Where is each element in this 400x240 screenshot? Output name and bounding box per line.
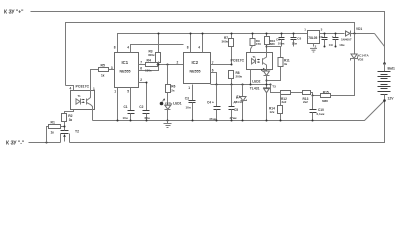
ground — [164, 121, 172, 128]
wire rail2 +12V — [66, 23, 355, 86]
pin wire bottom left — [250, 70, 252, 85]
svg-text:C7: C7 — [319, 35, 323, 39]
svg-text:1к: 1к — [51, 130, 55, 134]
wire to R11 — [267, 47, 281, 58]
capacitor C5 — [229, 85, 239, 122]
svg-text:К ЗУ "-": К ЗУ "-" — [6, 141, 25, 147]
internal phototransistor — [262, 58, 264, 64]
wire bottom rail to battery — [70, 101, 385, 143]
svg-text:T2: T2 — [75, 130, 79, 134]
svg-text:2к2: 2к2 — [282, 100, 287, 104]
ground — [310, 47, 317, 49]
svg-text:3: 3 — [111, 66, 113, 70]
pin 6 wire — [139, 65, 159, 71]
svg-text:1: 1 — [93, 87, 95, 91]
svg-text:1к: 1к — [101, 73, 105, 77]
wire top positive rail — [31, 12, 385, 64]
svg-text:6: 6 — [212, 69, 214, 73]
svg-text:Bat1: Bat1 — [388, 66, 395, 70]
svg-text:10м: 10м — [339, 43, 344, 47]
svg-text:К ЗУ "+": К ЗУ "+" — [4, 10, 24, 16]
resistor R2 — [62, 110, 74, 131]
output wire — [320, 33, 345, 35]
svg-text:2: 2 — [177, 61, 179, 65]
svg-text:7: 7 — [140, 61, 142, 65]
svg-text:8: 8 — [114, 46, 116, 50]
pin 8 wire — [190, 34, 192, 53]
wire bottom negative rail left — [29, 142, 61, 144]
resistor R4 — [145, 59, 184, 73]
svg-text:47мк: 47мк — [230, 116, 238, 120]
wire ground rail — [93, 101, 385, 121]
diode VD1 — [341, 27, 375, 41]
pin 5 wire — [130, 88, 132, 111]
svg-text:7: 7 — [212, 61, 214, 65]
svg-text:470: 470 — [256, 42, 261, 46]
resistor R8 — [229, 64, 243, 86]
op-amp IC2 NE555 — [184, 33, 232, 101]
svg-text:NE555: NE555 — [190, 70, 201, 74]
wire TL431 ref branch — [270, 84, 281, 93]
pin 1 wire to C3 — [192, 85, 194, 101]
svg-text:0,1мк: 0,1мк — [317, 112, 325, 116]
svg-text:68н: 68н — [145, 116, 150, 120]
svg-text:4: 4 — [70, 87, 72, 91]
capacitor C1 — [123, 105, 135, 122]
svg-text:VD1: VD1 — [356, 27, 362, 31]
svg-text:R1: R1 — [51, 121, 55, 125]
wire node line y84 — [211, 84, 271, 86]
svg-text:Д1: Д1 — [236, 95, 240, 99]
svg-text:C9: C9 — [329, 43, 333, 47]
resistor R10 — [265, 33, 276, 53]
capacitor C8 — [291, 33, 302, 47]
svg-text:10м: 10м — [292, 42, 297, 46]
resistor R1 — [47, 121, 65, 143]
resistor R3 — [148, 33, 161, 65]
internal phototransistor — [86, 99, 88, 105]
svg-text:TL431: TL431 — [250, 87, 260, 91]
svg-text:10н: 10н — [123, 116, 128, 120]
pin 7 wire — [139, 64, 146, 66]
svg-text:C5: C5 — [234, 108, 238, 112]
svg-text:8: 8 — [187, 46, 189, 50]
zener D1 — [234, 84, 247, 122]
svg-text:1: 1 — [114, 89, 116, 93]
svg-text:NE555: NE555 — [120, 70, 131, 74]
svg-text:Т3: Т3 — [272, 84, 276, 88]
svg-text:Д814А: Д814А — [234, 100, 244, 104]
resistor R13 — [303, 91, 321, 105]
ground pin — [313, 44, 315, 47]
pin 2 wire — [139, 83, 147, 111]
svg-text:10мк: 10мк — [278, 42, 285, 46]
optocoupler U1 PC817C — [66, 72, 96, 110]
capacitor C7 — [319, 33, 334, 48]
resistor R14 — [269, 93, 283, 122]
svg-text:C3: C3 — [185, 97, 189, 101]
resistor R7 — [222, 33, 234, 65]
svg-text:R5: R5 — [101, 63, 105, 67]
LED LED2 — [252, 68, 269, 88]
wire diagonal to battery plus — [375, 34, 385, 47]
wire U1 pin2 to ground rail — [92, 110, 94, 121]
svg-text:300к: 300к — [148, 53, 155, 57]
capacitor C2 — [139, 105, 150, 122]
resistor R5 — [91, 63, 115, 77]
svg-text:PC817C: PC817C — [231, 58, 245, 62]
pin 7 wire — [211, 64, 232, 66]
pin 4 — [66, 86, 74, 91]
svg-text:12V: 12V — [388, 97, 395, 101]
svg-text:1: 1 — [188, 86, 190, 90]
svg-text:10н: 10н — [186, 106, 191, 110]
wire rail3 Vcc of timers — [118, 34, 308, 53]
pin 4 wire — [131, 45, 184, 53]
svg-text:IC1: IC1 — [122, 60, 129, 65]
svg-text:C2: C2 — [139, 105, 143, 109]
svg-text:3к: 3к — [69, 118, 73, 122]
svg-text:IC2: IC2 — [192, 60, 199, 65]
resistor R11 — [267, 58, 290, 81]
svg-text:6: 6 — [140, 67, 142, 71]
svg-text:4: 4 — [198, 46, 200, 50]
pin 1 wire — [117, 88, 119, 121]
svg-text:6М8: 6М8 — [322, 99, 328, 103]
zener VD2 — [351, 34, 370, 96]
transistor T2 — [61, 127, 80, 143]
svg-text:LED2: LED2 — [252, 80, 260, 84]
svg-text:47мк: 47мк — [209, 117, 217, 121]
svg-text:680: 680 — [270, 42, 275, 46]
capacitor C4 — [207, 84, 221, 122]
pin 3 — [90, 72, 92, 91]
resistor R15 — [321, 61, 355, 103]
capacitor C9 — [329, 33, 345, 48]
voltage regulator 78L05 — [304, 28, 344, 53]
LED LED1 — [160, 93, 182, 122]
svg-text:4: 4 — [127, 46, 129, 50]
capacitor C6 — [276, 33, 285, 47]
svg-text:200к: 200к — [236, 75, 243, 79]
capacitor C3 — [185, 97, 196, 122]
svg-text:C4 +: C4 + — [207, 101, 214, 105]
op-amp IC1 NE555 — [114, 45, 184, 122]
resistor R6 — [166, 65, 176, 93]
shunt regulator TL431 — [250, 84, 276, 121]
optocoupler U2 PC817C — [231, 53, 273, 86]
svg-text:12к: 12к — [270, 110, 275, 114]
svg-text:PC817C: PC817C — [76, 85, 90, 89]
battery Bat1 — [378, 62, 395, 102]
svg-text:3к: 3к — [284, 62, 288, 66]
svg-text:C8: C8 — [297, 37, 301, 41]
svg-text:R15: R15 — [323, 91, 329, 95]
svg-text:R4: R4 — [147, 59, 151, 63]
svg-text:130к: 130к — [145, 69, 152, 73]
pin 6 wire — [211, 73, 217, 85]
svg-text:2: 2 — [140, 78, 142, 82]
svg-text:360к: 360к — [222, 40, 229, 44]
capacitor C10 — [310, 96, 325, 122]
svg-text:2к: 2к — [171, 89, 175, 93]
svg-text:78L05: 78L05 — [308, 36, 317, 40]
svg-text:5: 5 — [127, 89, 129, 93]
pin 4 wire — [202, 34, 204, 53]
resistor R9 — [250, 33, 261, 53]
svg-text:2к2: 2к2 — [303, 100, 308, 104]
svg-text:1N4007: 1N4007 — [341, 37, 352, 41]
svg-text:VD2: VD2 — [358, 57, 364, 61]
svg-text:C1: C1 — [124, 105, 128, 109]
resistor R12 — [281, 91, 303, 105]
